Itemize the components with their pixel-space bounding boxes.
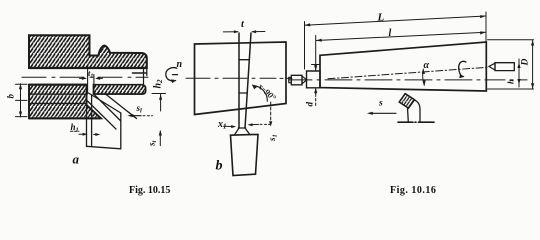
svg-text:d: d (305, 102, 315, 107)
dimension t (fig b) (223, 30, 265, 33)
blade crossbar 2 (fig b) (239, 92, 247, 94)
svg-text:h: h (506, 79, 516, 84)
svg-text:D: D (521, 59, 531, 67)
rotation symbol n (fig b) (166, 68, 177, 81)
l dimension line (fig 10.16) (316, 31, 486, 42)
feed arrow s_l (fig a) (127, 114, 152, 117)
svg-text:s1: s1 (267, 134, 279, 142)
cut face line (fig a) (87, 67, 89, 95)
dimension t1 arrows (fig a) (80, 77, 103, 80)
tool head (fig 10.16) (399, 94, 414, 109)
small end stub (fig 10.16) (307, 71, 321, 88)
caption Fig. 10.16 (390, 185, 436, 196)
tapered workpiece (fig 10.16) (320, 42, 486, 91)
tool bent shank (fig 10.16) (407, 108, 410, 122)
feed arrow s_t (fig a) (159, 130, 162, 146)
bore end face (fig a) (143, 68, 145, 85)
feed leader s1 (fig b) (269, 102, 272, 127)
dimension h2 (fig a) (152, 94, 166, 112)
bore step line 1 (29, 93, 87, 95)
label x1 arrows (fig b) (224, 123, 270, 128)
tool blade (fig a) (87, 94, 92, 147)
L dimension line (fig 10.16) (305, 15, 486, 26)
bore step line 2 (29, 103, 87, 105)
rotation hook (fig 10.16) (459, 61, 466, 76)
groove line (fig a) (93, 75, 95, 86)
tool blade diagonals (fig a) (88, 93, 137, 129)
svg-text:b: b (6, 94, 16, 99)
witness+d dim line (fig 10.16) (312, 36, 321, 106)
workpiece upper wall (fig a) (29, 35, 147, 68)
tool neck (fig b) (235, 128, 251, 135)
svg-text:t1: t1 (88, 68, 93, 80)
svg-text:sl: sl (136, 103, 143, 115)
tool base line (fig 10.16) (398, 121, 434, 123)
svg-text:s: s (378, 99, 383, 109)
svg-text:st: st (147, 140, 159, 147)
workpiece lower-left wall (fig a) (29, 85, 101, 119)
svg-text:L: L (377, 12, 385, 24)
svg-text:h2: h2 (153, 79, 165, 89)
cylinder (fig b) (195, 42, 287, 115)
dimension h1 arrows (fig a) (71, 131, 101, 136)
feed arrow s (fig 10.16) (367, 112, 396, 115)
left dead center (fig 10.16) (291, 75, 302, 85)
D dimension (fig 10.16) (488, 40, 535, 89)
right witness extension (fig 10.16) (485, 12, 487, 42)
svg-text:n: n (177, 59, 183, 70)
svg-text:x1: x1 (217, 119, 227, 131)
centerline (fig 10.16) (289, 79, 528, 81)
witness lines left (fig 10.16) (304, 22, 306, 70)
centerline (fig a) (22, 76, 148, 78)
angle arc 90deg (fig b) (253, 85, 268, 101)
h dimension (fig 10.16) (517, 59, 520, 87)
svg-text:α: α (424, 60, 430, 71)
svg-text:a: a (73, 152, 80, 167)
svg-text:b: b (216, 159, 223, 174)
tool shank (fig b) (231, 134, 259, 175)
bore recess line (fig a) (133, 72, 147, 74)
parting blade (fig b) (239, 33, 251, 128)
svg-text:l: l (389, 28, 392, 39)
centerline (fig b) (186, 77, 292, 79)
blade crossbar 1 (fig b) (239, 59, 250, 61)
dimension b (fig a) (16, 84, 28, 117)
tool shank (fig a) (87, 113, 121, 149)
feed construction dashed line (fig 10.16) (328, 67, 487, 79)
angle alpha arc (fig 10.16) (422, 69, 426, 86)
workpiece lower-right strip (fig a) (94, 85, 146, 94)
svg-text:h1: h1 (71, 122, 79, 134)
svg-text:t: t (241, 19, 245, 30)
right dead center (fig 10.16) (495, 63, 514, 71)
caption Fig. 10.15 (129, 185, 170, 196)
